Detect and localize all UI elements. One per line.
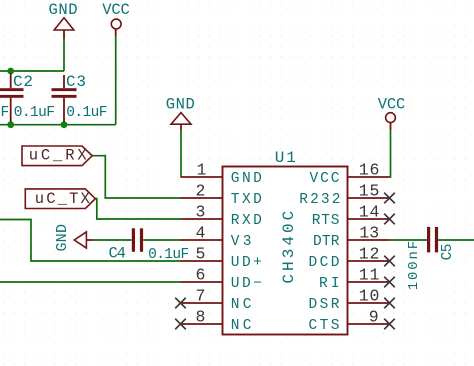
svg-text:1: 1 [197, 160, 207, 179]
svg-text:15: 15 [359, 181, 380, 200]
svg-text:VCC: VCC [102, 1, 130, 19]
svg-text:0.1uF: 0.1uF [66, 105, 107, 121]
svg-text:14: 14 [359, 202, 380, 221]
svg-text:DSR: DSR [309, 297, 340, 313]
svg-text:DCD: DCD [309, 255, 340, 271]
svg-text:0.1uF: 0.1uF [148, 247, 189, 263]
svg-text:TXD: TXD [231, 192, 262, 208]
svg-text:UD+: UD+ [231, 255, 262, 271]
svg-text:GND: GND [54, 224, 71, 252]
svg-text:12: 12 [359, 244, 380, 263]
svg-text:C5: C5 [440, 244, 456, 261]
svg-text:UD−: UD− [231, 276, 262, 292]
svg-text:GND: GND [166, 96, 195, 114]
svg-text:8: 8 [196, 307, 206, 326]
svg-text:CTS: CTS [309, 318, 340, 334]
svg-text:9: 9 [369, 307, 379, 326]
svg-text:6: 6 [196, 265, 206, 284]
svg-text:RXD: RXD [231, 213, 262, 229]
svg-text:VCC: VCC [378, 96, 406, 114]
svg-text:GND: GND [49, 1, 78, 19]
svg-text:uC_RX: uC_RX [29, 147, 88, 165]
svg-text:5: 5 [196, 244, 206, 263]
svg-text:DTR: DTR [313, 234, 340, 250]
svg-text:C2: C2 [13, 73, 33, 91]
svg-text:2: 2 [196, 181, 206, 200]
svg-text:11: 11 [359, 265, 380, 284]
svg-text:RTS: RTS [312, 213, 340, 229]
svg-text:0.1uF: 0.1uF [14, 105, 55, 121]
svg-text:GND: GND [231, 171, 262, 187]
svg-text:16: 16 [359, 160, 380, 179]
svg-text:F: F [1, 105, 10, 121]
svg-text:100nF: 100nF [406, 241, 422, 290]
svg-text:VCC: VCC [310, 171, 340, 187]
svg-text:3: 3 [196, 202, 206, 221]
svg-text:7: 7 [196, 286, 206, 305]
svg-text:10: 10 [359, 286, 380, 305]
svg-text:C3: C3 [66, 73, 86, 91]
svg-text:13: 13 [359, 223, 379, 242]
svg-text:uC_TX: uC_TX [35, 190, 91, 208]
svg-text:C4: C4 [109, 244, 126, 262]
svg-text:4: 4 [196, 223, 206, 242]
svg-text:U1: U1 [275, 149, 296, 167]
